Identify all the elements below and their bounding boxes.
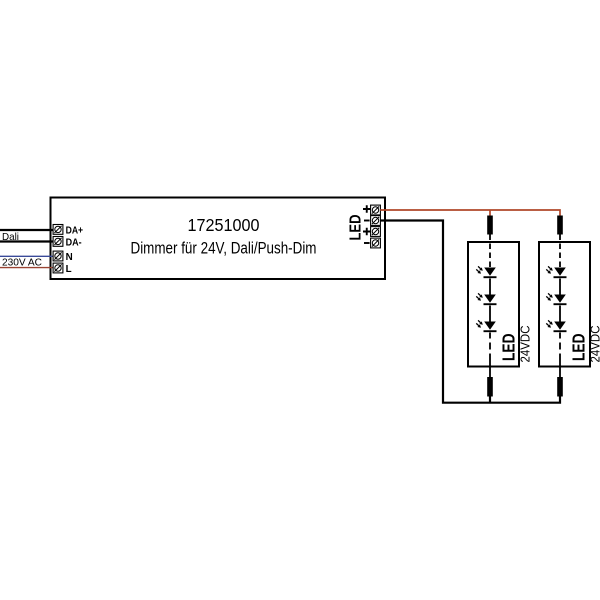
LED D6 xyxy=(546,320,566,331)
connector bar top strip1 xyxy=(487,216,493,235)
LED strip 2 box xyxy=(539,242,590,367)
wire return (black) from LED- around bottom xyxy=(380,221,560,403)
wire N (blue, 230V AC) xyxy=(0,255,54,257)
svg-text:24VDC: 24VDC xyxy=(519,326,533,363)
wire dashed lead-in strip2 xyxy=(559,235,561,268)
svg-text:Dimmer für 24V, Dali/Push-Dim: Dimmer für 24V, Dali/Push-Dim xyxy=(131,240,317,258)
wire D1-D2 strip1 xyxy=(489,279,491,295)
connector bar bottom strip2 xyxy=(557,377,563,397)
terminal LED+ out1 xyxy=(371,205,381,215)
wire dashed lead-in strip1 xyxy=(489,235,491,268)
svg-text:LED: LED xyxy=(499,334,519,362)
svg-text:N: N xyxy=(66,252,73,263)
svg-text:DA-: DA- xyxy=(66,237,82,248)
svg-text:17251000: 17251000 xyxy=(188,215,260,235)
wire D4-D5 strip2 xyxy=(559,279,561,295)
LED D5 xyxy=(546,293,566,304)
wire D2-D3 strip1 xyxy=(489,306,491,322)
LED D2 xyxy=(476,293,496,304)
wire dashed lead-out strip2 xyxy=(559,333,561,378)
wire DA+ (Dali bus) xyxy=(0,229,54,231)
svg-text:Dali: Dali xyxy=(2,231,19,243)
connector bar bottom strip1 xyxy=(487,377,493,397)
terminal LED- out1 xyxy=(371,216,381,226)
LED D1 xyxy=(476,266,496,277)
wire L (brown-red, 230V AC) xyxy=(0,267,54,269)
wire +24V (red) from LED+ to strips xyxy=(380,210,560,216)
svg-text:LED: LED xyxy=(569,334,589,362)
terminal LED- out2 xyxy=(371,238,381,248)
LED D4 xyxy=(546,266,566,277)
wire D5-D6 strip2 xyxy=(559,306,561,322)
terminal N xyxy=(53,251,63,261)
dimmer unit box U1 xyxy=(51,198,386,280)
svg-text:DA+: DA+ xyxy=(66,225,84,236)
svg-text:24VDC: 24VDC xyxy=(589,326,600,363)
LED D3 xyxy=(476,320,496,331)
terminal DA+ xyxy=(53,225,63,235)
svg-text:230V AC: 230V AC xyxy=(2,256,42,268)
connector bar top strip2 xyxy=(557,216,563,235)
svg-text:L: L xyxy=(66,264,72,275)
terminal DA- xyxy=(53,237,63,247)
wire dashed lead-out strip1 xyxy=(489,333,491,378)
pin label - (output 2) xyxy=(364,242,370,244)
pin label + (output 2) xyxy=(363,228,371,236)
terminal LED+ out2 xyxy=(371,227,381,237)
svg-text:LED: LED xyxy=(348,215,365,241)
pin label + (output 1) xyxy=(363,205,371,213)
LED strip 1 box xyxy=(468,242,519,367)
wire DA- (Dali bus) xyxy=(0,240,54,242)
pin label - (output 1) xyxy=(364,220,370,222)
terminal L xyxy=(53,263,63,273)
